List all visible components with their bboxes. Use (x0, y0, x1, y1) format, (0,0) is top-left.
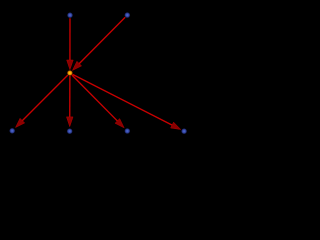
wire edge C-B1 (21, 75, 68, 122)
arrowhead T2-C (72, 61, 81, 70)
wire edge T1-C (69, 18, 71, 62)
wire edge C-B4 (73, 74, 174, 126)
arrowhead C-B4 (171, 122, 181, 129)
wire edge C-B3 (72, 75, 119, 122)
wire edge T2-C (78, 17, 125, 65)
arrowhead T1-C (67, 60, 74, 70)
node B3 (blue) (125, 128, 131, 134)
node C (center, orange) (67, 70, 73, 76)
arrowhead C-B1 (15, 118, 24, 127)
node B2 (blue) (67, 128, 73, 134)
node T1 (blue) (67, 12, 73, 18)
arrowhead C-B3 (115, 119, 124, 128)
node B1 (blue) (9, 128, 15, 134)
wire edge C-B2 (69, 76, 71, 119)
node B4 (blue) (181, 128, 187, 134)
node T2 (blue) (125, 12, 131, 18)
directed graph diagram (0, 0, 198, 147)
arrowhead C-B2 (66, 117, 73, 127)
